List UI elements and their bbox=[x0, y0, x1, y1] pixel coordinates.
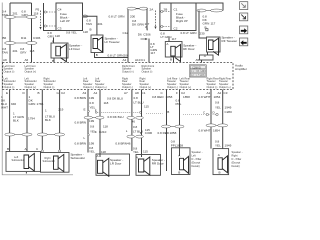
svg-text:Speaker -: Speaker - bbox=[192, 150, 203, 154]
fuse block Right I/P box bbox=[160, 3, 196, 31]
svg-text:PPL: PPL bbox=[176, 102, 182, 106]
inline connector pair C306 upper bbox=[5, 16, 38, 19]
svg-text:RF Tweeter: RF Tweeter bbox=[222, 39, 238, 43]
svg-text:46: 46 bbox=[132, 120, 136, 124]
terminal dashed line C4 bbox=[44, 11, 56, 13]
svg-text:1794: 1794 bbox=[28, 117, 35, 121]
svg-text:YEL: YEL bbox=[89, 150, 95, 154]
svg-text:1858: 1858 bbox=[166, 95, 173, 99]
wire labels top left bbox=[2, 10, 39, 18]
svg-text:GRY: GRY bbox=[20, 51, 27, 55]
node labels C306 row bbox=[3, 36, 41, 40]
wire sub B bbox=[41, 90, 43, 150]
wire down RF bbox=[199, 11, 207, 39]
svg-text:Output (-): Output (-) bbox=[142, 69, 153, 73]
svg-text:B: B bbox=[170, 58, 172, 62]
C268 ID legend table bbox=[189, 65, 206, 77]
svg-text:E: E bbox=[6, 91, 8, 95]
svg-text:A7: A7 bbox=[124, 91, 128, 95]
svg-text:B6: B6 bbox=[3, 36, 7, 40]
svg-text:C2: C2 bbox=[61, 91, 65, 95]
svg-text:Output (-): Output (-) bbox=[207, 85, 218, 89]
amp second row pin function labels bbox=[4, 76, 232, 88]
svg-text:RR Door: RR Door bbox=[152, 162, 164, 166]
wire LR A4 bbox=[99, 90, 101, 158]
svg-text:46: 46 bbox=[127, 141, 131, 145]
svg-text:118: 118 bbox=[83, 30, 88, 34]
svg-text:118: 118 bbox=[34, 12, 39, 16]
inline connector pair mid right bbox=[162, 125, 185, 128]
svg-text:C3: C3 bbox=[224, 91, 228, 95]
left inline connector pair bottom 2 bbox=[37, 133, 64, 136]
svg-text:Denali): Denali) bbox=[232, 164, 240, 168]
svg-text:YEL: YEL bbox=[215, 106, 221, 110]
svg-text:RF Door: RF Door bbox=[183, 47, 195, 51]
svg-text:TAN: TAN bbox=[86, 22, 92, 26]
labels 0.8 DK GRN 117 bbox=[181, 15, 216, 36]
svg-text:D11: D11 bbox=[21, 36, 27, 40]
svg-text:C268 ID: C268 ID bbox=[192, 67, 201, 69]
labels 0.8 DK GRN 117 bbox=[123, 19, 151, 40]
svg-text:TAN: TAN bbox=[2, 51, 8, 55]
svg-text:117: 117 bbox=[150, 51, 155, 55]
svg-text:0.8 YEL: 0.8 YEL bbox=[66, 31, 77, 35]
svg-text:YEL: YEL bbox=[90, 129, 96, 133]
svg-text:C306: C306 bbox=[143, 33, 151, 37]
pin below left sub bbox=[25, 172, 27, 174]
svg-text:B: B bbox=[90, 28, 92, 32]
svg-text:Output (-): Output (-) bbox=[4, 85, 15, 89]
svg-text:1949: 1949 bbox=[225, 144, 232, 148]
svg-text:WHT: WHT bbox=[1, 106, 8, 110]
wire from LT GRN into RF door bbox=[150, 37, 176, 55]
svg-text:B: B bbox=[178, 171, 180, 175]
wire LD C bbox=[166, 90, 168, 172]
svg-text:LR Door: LR Door bbox=[110, 162, 121, 166]
svg-text:A10: A10 bbox=[135, 58, 141, 62]
inline connector pair on horizontal bbox=[127, 7, 148, 10]
dotted link right with circles bbox=[183, 111, 218, 116]
left inline connector pair bottom 1 bbox=[5, 133, 32, 136]
button left arrow bbox=[240, 38, 248, 46]
svg-text:0.8 DK BLU: 0.8 DK BLU bbox=[107, 97, 123, 101]
svg-text:YEL: YEL bbox=[133, 150, 139, 154]
svg-text:C210: C210 bbox=[99, 130, 107, 134]
fuse block Left I/P box bbox=[56, 3, 83, 31]
middle wire labels bbox=[75, 96, 124, 110]
svg-text:Right: Right bbox=[232, 154, 238, 158]
svg-text:118: 118 bbox=[103, 124, 108, 128]
wire sub D bbox=[26, 90, 28, 152]
svg-text:Subwoofer: Subwoofer bbox=[12, 158, 24, 162]
svg-text:B: B bbox=[96, 53, 98, 57]
svg-text:1858: 1858 bbox=[176, 144, 183, 148]
bottom pin letters bbox=[6, 91, 228, 95]
svg-text:B: B bbox=[219, 171, 221, 175]
svg-text:199: 199 bbox=[89, 96, 94, 100]
amp top row pin function labels bbox=[4, 64, 155, 74]
svg-text:A4: A4 bbox=[123, 58, 127, 62]
svg-text:946: 946 bbox=[11, 102, 16, 106]
svg-text:F: F bbox=[176, 91, 178, 95]
svg-text:1786: 1786 bbox=[37, 102, 44, 106]
wire labels below connector bbox=[2, 47, 35, 55]
svg-text:Denali): Denali) bbox=[192, 164, 200, 168]
svg-text:C2 = LT GRN: C2 = LT GRN bbox=[191, 75, 205, 77]
speaker LF door bbox=[51, 43, 82, 62]
wire LR A3 bbox=[87, 90, 89, 153]
svg-text:0.8: 0.8 bbox=[215, 101, 220, 105]
svg-text:0.8: 0.8 bbox=[133, 125, 138, 129]
svg-text:1858: 1858 bbox=[183, 95, 190, 99]
speaker right subwoofer box bbox=[41, 153, 86, 173]
label 0.8 LT GRN 200 bbox=[108, 54, 129, 58]
labels LT GRN 200 bbox=[109, 15, 136, 19]
pin A8 bbox=[3, 58, 7, 62]
svg-text:D6: D6 bbox=[138, 33, 142, 37]
svg-text:P5: P5 bbox=[36, 8, 40, 12]
inline connector pair right bottom bbox=[206, 124, 228, 127]
svg-text:0.8: 0.8 bbox=[134, 96, 139, 100]
svg-text:C3: C3 bbox=[58, 27, 62, 31]
C210 dotted link bbox=[75, 108, 142, 140]
svg-text:L: L bbox=[84, 136, 86, 140]
pin B below bbox=[52, 58, 54, 63]
svg-text:0.8 WHT: 0.8 WHT bbox=[199, 95, 211, 99]
wire D6 down to amp bbox=[148, 39, 150, 63]
svg-text:C1 = DK GRN: C1 = DK GRN bbox=[191, 71, 206, 73]
wire GRY 118 bbox=[31, 3, 33, 63]
svg-text:LT GRN: LT GRN bbox=[161, 35, 172, 39]
wire sub C bbox=[59, 90, 61, 150]
pin A10 C1 bbox=[135, 58, 145, 62]
svg-text:1858: 1858 bbox=[170, 131, 177, 135]
label 0.8 TAN 201 bbox=[83, 19, 103, 34]
label 0.8 YEL 118 bbox=[66, 31, 77, 35]
svg-text:C4: C4 bbox=[58, 8, 62, 12]
svg-text:A8: A8 bbox=[3, 58, 7, 62]
svg-text:201: 201 bbox=[13, 12, 18, 16]
svg-text:GRN: GRN bbox=[29, 102, 36, 106]
pin A and connector bbox=[200, 52, 214, 63]
svg-text:0.8 DK BLU: 0.8 DK BLU bbox=[108, 115, 124, 119]
svg-text:C1: C1 bbox=[141, 58, 145, 62]
svg-text:LF Door: LF Door bbox=[69, 47, 80, 51]
svg-text:C1: C1 bbox=[142, 91, 146, 95]
svg-text:1854: 1854 bbox=[213, 129, 220, 133]
wire down to C306 A bbox=[146, 9, 148, 29]
right-middle wire labels bbox=[127, 95, 190, 138]
svg-text:YEL: YEL bbox=[215, 144, 221, 148]
svg-text:Output (+): Output (+) bbox=[140, 85, 152, 89]
middle labels lower bbox=[75, 115, 131, 158]
svg-text:Output (+): Output (+) bbox=[180, 85, 192, 89]
svg-text:LF Tweeter: LF Tweeter bbox=[105, 40, 120, 44]
button right arrow bbox=[240, 26, 248, 34]
svg-text:0.8 BRN: 0.8 BRN bbox=[115, 141, 127, 145]
svg-text:199: 199 bbox=[89, 119, 94, 123]
C306 mid labels bbox=[140, 128, 177, 135]
wire LD F bbox=[179, 90, 181, 157]
svg-text:115: 115 bbox=[144, 105, 149, 109]
svg-text:0.8 RED: 0.8 RED bbox=[152, 95, 164, 99]
wire fuse to LF tweeter bbox=[83, 16, 97, 35]
svg-text:Output (+): Output (+) bbox=[95, 85, 107, 89]
connector P5 dashed bbox=[36, 8, 42, 30]
svg-text:118: 118 bbox=[101, 150, 106, 154]
svg-text:0.8 BRN: 0.8 BRN bbox=[75, 121, 87, 125]
wire LF tweeter down bbox=[95, 53, 129, 58]
svg-text:B: B bbox=[38, 91, 40, 95]
svg-text:219: 219 bbox=[58, 108, 63, 112]
svg-text:Output (+): Output (+) bbox=[219, 85, 231, 89]
svg-text:118: 118 bbox=[55, 34, 60, 38]
svg-text:B: B bbox=[7, 147, 9, 151]
svg-text:Right I/P: Right I/P bbox=[176, 19, 188, 23]
svg-text:0.8 LT GRN: 0.8 LT GRN bbox=[181, 31, 197, 35]
svg-text:LT BLU: LT BLU bbox=[134, 101, 144, 105]
svg-text:117: 117 bbox=[172, 37, 177, 41]
svg-text:D - Pillar: D - Pillar bbox=[192, 157, 202, 161]
svg-text:(Except: (Except bbox=[232, 161, 241, 165]
svg-text:Output (-): Output (-) bbox=[4, 69, 15, 73]
wire fuse right top run bbox=[196, 3, 223, 11]
svg-text:A4: A4 bbox=[94, 91, 98, 95]
svg-text:B: B bbox=[167, 110, 169, 114]
pin A6 bbox=[25, 58, 29, 62]
svg-text:201: 201 bbox=[98, 22, 103, 26]
svg-text:0.8 BRN: 0.8 BRN bbox=[75, 141, 87, 145]
svg-text:(Except: (Except bbox=[192, 161, 201, 165]
svg-text:GRY: GRY bbox=[22, 13, 29, 17]
svg-text:1949: 1949 bbox=[225, 106, 232, 110]
right labels YEL 1949 bbox=[199, 95, 233, 114]
wire A5 up from amp bbox=[128, 9, 147, 63]
terminal dashes bbox=[161, 10, 171, 12]
svg-text:230: 230 bbox=[200, 32, 205, 36]
svg-text:A5: A5 bbox=[196, 58, 200, 62]
svg-text:118: 118 bbox=[104, 101, 109, 105]
wire RR A8 bbox=[141, 90, 143, 158]
wire RR A7 bbox=[131, 90, 133, 152]
wire sub E bbox=[9, 90, 11, 152]
svg-text:0.8 RED: 0.8 RED bbox=[158, 131, 170, 135]
wire RD A2 bbox=[222, 90, 224, 149]
svg-text:0.8 WHT: 0.8 WHT bbox=[199, 129, 211, 133]
svg-text:A8: A8 bbox=[135, 91, 139, 95]
labels below 2B bbox=[161, 32, 172, 40]
svg-text:Amplifier: Amplifier bbox=[235, 67, 247, 71]
svg-text:Speaker -: Speaker - bbox=[232, 150, 243, 154]
wire top link bbox=[10, 2, 32, 4]
svg-text:Subwoofer: Subwoofer bbox=[71, 156, 86, 160]
svg-text:Output (-): Output (-) bbox=[83, 85, 94, 89]
svg-text:1854: 1854 bbox=[214, 95, 221, 99]
svg-text:115: 115 bbox=[143, 149, 148, 153]
wire into LF door bbox=[48, 31, 61, 43]
svg-text:1: 1 bbox=[45, 109, 47, 113]
svg-text:DK GRN: DK GRN bbox=[132, 22, 144, 26]
svg-text:0.8: 0.8 bbox=[90, 124, 95, 128]
right lower labels bbox=[133, 129, 232, 160]
svg-text:Output (+): Output (+) bbox=[25, 85, 37, 89]
svg-text:D - Pillar: D - Pillar bbox=[232, 157, 242, 161]
wire RD A1 bbox=[210, 90, 212, 149]
svg-text:Output (-): Output (-) bbox=[167, 85, 178, 89]
button diagonal arrow 2 bbox=[240, 13, 248, 21]
svg-text:C306: C306 bbox=[145, 131, 153, 135]
fuse block connector cavity box bbox=[44, 3, 83, 31]
svg-text:C1: C1 bbox=[174, 8, 178, 12]
svg-text:0.8 LT GRN: 0.8 LT GRN bbox=[109, 15, 125, 19]
svg-text:2B: 2B bbox=[164, 8, 168, 12]
page border left and bottom bbox=[2, 3, 73, 175]
pin A5 bbox=[196, 58, 200, 62]
splice at fuse output bbox=[82, 15, 88, 18]
svg-text:C280: C280 bbox=[225, 110, 233, 114]
svg-text:201: 201 bbox=[13, 49, 18, 53]
speaker left subwoofer box bbox=[6, 152, 41, 172]
svg-text:E: E bbox=[84, 108, 86, 112]
svg-text:0.8 LT GRN: 0.8 LT GRN bbox=[108, 54, 124, 58]
pins bbox=[7, 147, 61, 152]
svg-text:0.8: 0.8 bbox=[90, 101, 95, 105]
svg-text:C306: C306 bbox=[33, 36, 41, 40]
dotted link middle right bbox=[146, 110, 169, 114]
svg-text:C12: C12 bbox=[123, 31, 129, 35]
svg-text:C2: C2 bbox=[174, 27, 178, 31]
connector cavity box 2B bbox=[160, 3, 171, 31]
svg-text:118: 118 bbox=[30, 49, 35, 53]
svg-text:A6: A6 bbox=[25, 58, 29, 62]
svg-text:Subwoofer: Subwoofer bbox=[43, 159, 55, 163]
svg-text:117: 117 bbox=[211, 22, 216, 26]
inline connector pair right bbox=[197, 9, 223, 12]
button diagonal arrow 1 bbox=[240, 2, 248, 10]
svg-text:L: L bbox=[126, 129, 128, 133]
svg-text:Left: Left bbox=[192, 154, 197, 158]
svg-text:TAN: TAN bbox=[2, 13, 8, 17]
svg-text:A3: A3 bbox=[83, 91, 87, 95]
left wire labels bbox=[1, 95, 64, 123]
svg-text:199: 199 bbox=[89, 141, 94, 145]
terminal dashed line C3 bbox=[44, 25, 56, 27]
wire RF door down to amp bbox=[170, 57, 174, 63]
svg-text:K: K bbox=[140, 131, 142, 135]
wire TAN 201 left bbox=[9, 3, 11, 63]
svg-text:Left I/P: Left I/P bbox=[60, 19, 70, 23]
svg-text:Output (+): Output (+) bbox=[122, 69, 134, 73]
svg-text:Output (+): Output (+) bbox=[25, 69, 37, 73]
svg-text:BLK: BLK bbox=[13, 119, 19, 123]
svg-text:BLK: BLK bbox=[45, 118, 51, 122]
pin A4 bbox=[123, 58, 127, 62]
svg-text:0.8 BRN: 0.8 BRN bbox=[75, 96, 87, 100]
svg-text:Output (-): Output (-) bbox=[122, 85, 133, 89]
connector 2A dashed bbox=[150, 8, 157, 30]
inline connector pair lower bbox=[5, 42, 38, 45]
svg-text:Output (-): Output (-) bbox=[44, 85, 55, 89]
